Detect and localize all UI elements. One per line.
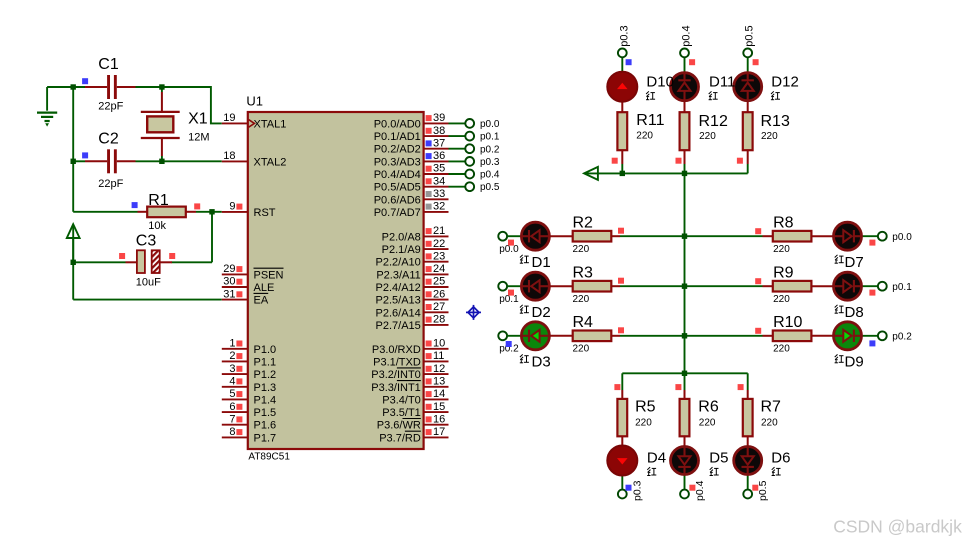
- svg-text:U1: U1: [246, 93, 263, 108]
- svg-text:P3.3/INT1: P3.3/INT1: [371, 382, 421, 394]
- svg-text:R12: R12: [699, 113, 728, 130]
- svg-text:P3.5/T1: P3.5/T1: [382, 407, 421, 419]
- svg-text:R13: R13: [761, 113, 790, 130]
- svg-text:P2.5/A13: P2.5/A13: [376, 295, 421, 307]
- svg-text:35: 35: [433, 163, 445, 175]
- svg-text:p0.2: p0.2: [892, 332, 912, 343]
- svg-text:P1.1: P1.1: [254, 356, 277, 368]
- svg-text:p0.0: p0.0: [480, 119, 500, 130]
- svg-text:R6: R6: [698, 399, 719, 416]
- svg-text:P3.6/WR: P3.6/WR: [377, 420, 421, 432]
- svg-text:220: 220: [635, 417, 652, 428]
- svg-text:P2.4/A12: P2.4/A12: [376, 282, 421, 294]
- svg-text:33: 33: [433, 188, 445, 200]
- svg-text:C2: C2: [98, 131, 119, 148]
- svg-text:10: 10: [433, 338, 445, 350]
- svg-text:39: 39: [433, 112, 445, 124]
- svg-text:D7: D7: [845, 254, 864, 271]
- svg-text:D3: D3: [532, 353, 551, 370]
- svg-text:P0.2/AD2: P0.2/AD2: [374, 144, 421, 156]
- svg-text:34: 34: [433, 175, 445, 187]
- svg-text:28: 28: [433, 314, 445, 326]
- svg-text:EA: EA: [254, 295, 269, 307]
- svg-text:D1: D1: [532, 254, 551, 271]
- svg-text:24: 24: [433, 263, 445, 275]
- svg-text:220: 220: [761, 131, 778, 142]
- svg-text:p0.5: p0.5: [744, 25, 756, 46]
- svg-text:P0.0/AD0: P0.0/AD0: [374, 118, 421, 130]
- svg-text:8: 8: [229, 426, 235, 438]
- svg-text:XTAL1: XTAL1: [254, 118, 287, 130]
- svg-text:17: 17: [433, 426, 445, 438]
- svg-text:P1.3: P1.3: [254, 382, 277, 394]
- svg-text:14: 14: [433, 388, 445, 400]
- svg-text:R5: R5: [635, 399, 656, 416]
- svg-text:R2: R2: [573, 214, 594, 231]
- svg-text:p0.4: p0.4: [681, 25, 693, 46]
- svg-text:1: 1: [229, 338, 235, 350]
- svg-text:R4: R4: [573, 314, 594, 331]
- svg-text:P1.5: P1.5: [254, 407, 277, 419]
- svg-text:D9: D9: [845, 353, 864, 370]
- svg-text:P3.7/RD: P3.7/RD: [379, 432, 421, 444]
- svg-text:37: 37: [433, 137, 445, 149]
- svg-text:36: 36: [433, 150, 445, 162]
- svg-text:6: 6: [229, 401, 235, 413]
- svg-text:26: 26: [433, 288, 445, 300]
- svg-text:P0.1/AD1: P0.1/AD1: [374, 131, 421, 143]
- svg-text:10k: 10k: [148, 220, 166, 232]
- svg-text:11: 11: [433, 350, 444, 362]
- svg-text:220: 220: [573, 244, 590, 255]
- svg-text:220: 220: [761, 417, 778, 428]
- svg-text:p0.4: p0.4: [694, 480, 706, 501]
- svg-text:p0.5: p0.5: [480, 182, 500, 193]
- svg-text:P0.4/AD4: P0.4/AD4: [374, 169, 421, 181]
- svg-text:C1: C1: [98, 56, 119, 73]
- svg-text:2: 2: [229, 350, 235, 362]
- svg-text:X1: X1: [188, 110, 208, 127]
- svg-text:22pF: 22pF: [98, 101, 123, 113]
- svg-text:P2.7/A15: P2.7/A15: [376, 320, 421, 332]
- svg-text:16: 16: [433, 413, 445, 425]
- svg-text:P1.7: P1.7: [254, 432, 277, 444]
- svg-text:220: 220: [573, 344, 590, 355]
- svg-text:P0.5/AD5: P0.5/AD5: [374, 182, 421, 194]
- svg-text:D11: D11: [709, 73, 735, 90]
- svg-text:19: 19: [223, 112, 235, 124]
- svg-text:P0.7/AD7: P0.7/AD7: [374, 207, 421, 219]
- svg-text:P3.1/TXD: P3.1/TXD: [373, 356, 421, 368]
- svg-text:22pF: 22pF: [98, 178, 123, 190]
- svg-text:P2.6/A14: P2.6/A14: [376, 307, 421, 319]
- svg-text:R9: R9: [773, 264, 794, 281]
- svg-text:C3: C3: [136, 233, 157, 250]
- svg-text:P2.1/A9: P2.1/A9: [382, 244, 421, 256]
- svg-text:P0.6/AD6: P0.6/AD6: [374, 194, 421, 206]
- svg-text:p0.3: p0.3: [618, 25, 630, 46]
- svg-text:D6: D6: [771, 450, 790, 467]
- svg-text:12: 12: [433, 363, 445, 375]
- svg-text:P2.0/A8: P2.0/A8: [382, 231, 421, 243]
- svg-text:7: 7: [229, 413, 235, 425]
- svg-text:9: 9: [229, 201, 235, 213]
- svg-text:5: 5: [229, 388, 235, 400]
- svg-text:R7: R7: [761, 399, 782, 416]
- svg-text:p0.3: p0.3: [632, 480, 644, 501]
- svg-text:4: 4: [229, 375, 235, 387]
- svg-text:P3.0/RXD: P3.0/RXD: [372, 344, 421, 356]
- svg-text:220: 220: [773, 294, 790, 305]
- svg-text:P2.2/A10: P2.2/A10: [376, 257, 421, 269]
- svg-text:D12: D12: [771, 73, 799, 90]
- svg-text:p0.1: p0.1: [480, 132, 500, 143]
- svg-text:220: 220: [636, 130, 653, 141]
- svg-text:P1.0: P1.0: [254, 344, 277, 356]
- svg-text:D10: D10: [646, 73, 674, 90]
- svg-text:38: 38: [433, 125, 445, 137]
- svg-text:31: 31: [223, 288, 235, 300]
- svg-text:PSEN: PSEN: [254, 269, 284, 281]
- svg-text:D8: D8: [845, 304, 864, 321]
- svg-text:RST: RST: [254, 207, 276, 219]
- svg-text:R1: R1: [148, 192, 169, 209]
- svg-text:23: 23: [433, 250, 445, 262]
- svg-text:R8: R8: [773, 214, 794, 231]
- svg-text:12M: 12M: [188, 131, 209, 143]
- svg-text:R11: R11: [636, 112, 664, 129]
- svg-text:p0.0: p0.0: [892, 232, 912, 243]
- svg-text:P2.3/A11: P2.3/A11: [376, 269, 420, 281]
- svg-text:p0.4: p0.4: [480, 170, 500, 181]
- svg-text:25: 25: [433, 276, 445, 288]
- svg-text:P1.2: P1.2: [254, 369, 277, 381]
- svg-text:P3.2/INT0: P3.2/INT0: [371, 369, 421, 381]
- svg-text:P1.4: P1.4: [254, 394, 277, 406]
- svg-text:P3.4/T0: P3.4/T0: [382, 394, 421, 406]
- svg-text:P1.6: P1.6: [254, 420, 277, 432]
- svg-text:AT89C51: AT89C51: [248, 452, 290, 463]
- svg-text:p0.1: p0.1: [892, 282, 912, 293]
- svg-text:29: 29: [223, 263, 235, 275]
- svg-text:P0.3/AD3: P0.3/AD3: [374, 156, 421, 168]
- svg-text:32: 32: [433, 201, 445, 213]
- svg-text:30: 30: [223, 276, 235, 288]
- svg-text:22: 22: [433, 238, 445, 250]
- svg-text:p0.2: p0.2: [480, 144, 500, 155]
- svg-text:27: 27: [433, 301, 445, 313]
- svg-text:220: 220: [573, 294, 590, 305]
- svg-text:R3: R3: [573, 264, 594, 281]
- svg-text:13: 13: [433, 375, 445, 387]
- svg-text:D5: D5: [709, 450, 728, 467]
- svg-text:10uF: 10uF: [136, 277, 161, 289]
- svg-text:D2: D2: [532, 304, 551, 321]
- svg-text:XTAL2: XTAL2: [254, 156, 287, 168]
- svg-text:21: 21: [433, 225, 445, 237]
- svg-text:p0.3: p0.3: [480, 157, 500, 168]
- svg-text:D4: D4: [647, 450, 666, 467]
- svg-text:p0.5: p0.5: [757, 480, 769, 501]
- svg-text:220: 220: [699, 417, 716, 428]
- svg-text:220: 220: [773, 344, 790, 355]
- svg-text:220: 220: [773, 244, 790, 255]
- svg-text:18: 18: [223, 150, 235, 162]
- svg-text:ALE: ALE: [254, 282, 275, 294]
- svg-text:CSDN @bardkjk: CSDN @bardkjk: [833, 517, 962, 537]
- svg-text:220: 220: [699, 131, 716, 142]
- svg-text:3: 3: [229, 363, 235, 375]
- svg-text:15: 15: [433, 401, 445, 413]
- svg-text:R10: R10: [773, 314, 802, 331]
